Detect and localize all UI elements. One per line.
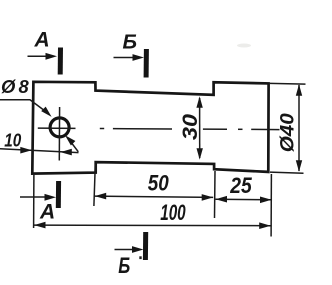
arrow B top (114, 57, 138, 59)
svg-text:Ø40: Ø40 (278, 113, 299, 152)
stray ink dot (139, 256, 141, 259)
extension below right step (214, 171, 217, 218)
section A-A cut line top (58, 48, 63, 75)
dimension 25 line (216, 198, 272, 201)
part outline (32, 82, 268, 174)
extension below left step (94, 164, 95, 206)
dimension 30 line (199, 98, 201, 158)
dimension 50 line (95, 196, 214, 197)
leader to hole lower right (69, 140, 78, 152)
svg-text:25: 25 (229, 173, 252, 198)
svg-text:Б: Б (118, 253, 130, 278)
svg-text:A: A (39, 201, 55, 224)
extension below right edge (270, 174, 272, 237)
svg-text:50: 50 (148, 171, 170, 196)
extension below left edge (33, 175, 35, 228)
svg-text:30: 30 (178, 114, 202, 140)
extension line bottom right (270, 172, 304, 173)
hole vertical centerline (58, 107, 60, 161)
section B-B cut line bottom (143, 232, 148, 260)
arrow B bottom (115, 249, 137, 251)
svg-text:10: 10 (4, 131, 21, 151)
faint scan smudge (237, 44, 251, 48)
extension line top right (270, 82, 306, 85)
horizontal centerline (38, 128, 280, 130)
dimension 10 line (0, 149, 79, 153)
svg-text:100: 100 (160, 200, 186, 225)
hole circle (50, 118, 69, 137)
section B-B cut line top (144, 49, 149, 78)
svg-text:A: A (34, 28, 50, 51)
arrow A top (28, 55, 51, 57)
svg-text:Ø8: Ø8 (1, 76, 32, 97)
arrow A bottom (20, 196, 48, 198)
section A-A cut line bottom (56, 181, 61, 208)
leader diameter 8 (0, 100, 47, 113)
dimension 100 line (34, 224, 271, 227)
dimension diameter 40 line (298, 85, 300, 171)
svg-text:Б: Б (123, 31, 138, 54)
